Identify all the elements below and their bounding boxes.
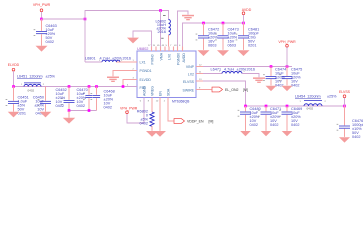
pin LX1 (1) left side <box>116 61 137 63</box>
svg-text:U6802: U6802 <box>137 46 148 51</box>
junction at riser x85 <box>84 18 87 21</box>
svg-text:2: 2 <box>43 84 45 86</box>
svg-text:0402: 0402 <box>77 104 85 108</box>
svg-text:0402: 0402 <box>28 88 35 92</box>
ground below C6450 <box>40 112 52 118</box>
ground for PVIN loop <box>127 38 139 44</box>
capacitor C6472 <box>203 23 205 35</box>
svg-text:4: 4 <box>179 45 181 47</box>
svg-text:PGND1: PGND1 <box>140 69 152 73</box>
ground below C6472 <box>198 50 210 56</box>
svg-text:L6801: L6801 <box>85 56 96 60</box>
capacitor C6451 <box>13 87 15 101</box>
ground bar for PGND1 <box>107 77 119 83</box>
wire corner into inductor L6802 <box>168 10 170 19</box>
wire VPH_PWR right stem <box>286 47 288 67</box>
wire VPH_PWR bottom to pin <box>127 98 144 124</box>
capacitor C6475 <box>286 67 288 76</box>
ground below AGND pin <box>154 131 166 137</box>
svg-text:±25%: ±25% <box>46 75 56 79</box>
pin ELVDD (3) left side <box>123 80 137 87</box>
wire ELVDD flag stem <box>13 71 15 87</box>
svg-text:ELVSS: ELVSS <box>339 90 351 94</box>
svg-text:VPH_PWR: VPH_PWR <box>120 107 138 111</box>
svg-text:VPH_PWR: VPH_PWR <box>33 3 51 7</box>
ground below C6471 <box>261 131 272 136</box>
svg-text:ELVSS: ELVSS <box>183 80 195 84</box>
svg-text:VPH_PWR: VPH_PWR <box>278 40 296 44</box>
svg-text:ELVDD: ELVDD <box>140 78 152 82</box>
ground below C6469 <box>282 131 293 136</box>
wire VPH_PWR flag stem <box>41 12 43 20</box>
svg-text:17: 17 <box>148 45 151 47</box>
wire AVDD pin riser x182.5 <box>183 23 244 47</box>
pin PGND1 (2) left side <box>113 71 137 77</box>
svg-text:L6451 120ohm: L6451 120ohm <box>17 75 43 79</box>
junction top rail to VMA pin <box>159 9 162 12</box>
svg-text:0402: 0402 <box>56 104 64 108</box>
svg-text:[M]: [M] <box>209 120 214 124</box>
wire VPH to L6801 <box>85 61 102 63</box>
svg-text:L6454 120ohm: L6454 120ohm <box>295 95 321 99</box>
capacitor C6463 <box>41 19 43 31</box>
svg-text:VINP: VINP <box>186 65 195 69</box>
capacitor C6468 <box>96 87 98 95</box>
capacitor C6474 <box>270 67 272 76</box>
svg-text:PGND0: PGND0 <box>176 53 180 65</box>
ground below C6481 <box>238 50 250 56</box>
wire L6801 to pin LX1 <box>120 61 137 63</box>
capacitor C6452 <box>68 87 70 100</box>
wire riser x85 down to L6801 row <box>84 10 86 62</box>
wire VINP rail <box>203 66 292 68</box>
svg-text:0402: 0402 <box>270 123 278 127</box>
ground for cap return rail <box>68 111 70 118</box>
inductor L6801 <box>102 60 120 62</box>
svg-text:2: 2 <box>164 100 166 102</box>
wire ELVSS to bottom rail <box>203 81 246 106</box>
svg-text:4.7uH: 4.7uH <box>100 56 110 60</box>
svg-text:±25%: ±25% <box>327 95 337 99</box>
svg-text:PVIN0: PVIN0 <box>150 54 154 64</box>
svg-text:4.7uH: 4.7uH <box>224 67 234 71</box>
svg-text:EL_ON2: EL_ON2 <box>225 88 238 92</box>
svg-text:15: 15 <box>153 45 156 47</box>
capacitor C6480 <box>245 106 247 111</box>
svg-text:5: 5 <box>166 45 168 47</box>
wire AGND pin to ground <box>159 98 161 131</box>
op-amp U6802 IC body <box>137 51 196 98</box>
ferrite bead L6454 <box>304 99 322 101</box>
svg-text:0603: 0603 <box>228 43 236 47</box>
svg-text:MT6368QB: MT6368QB <box>172 100 190 104</box>
svg-text:AGND: AGND <box>143 85 147 96</box>
wire LX2 to inductor L6471 <box>203 73 222 75</box>
wire AVDD flag stem <box>243 15 245 24</box>
ground below C6474 <box>266 86 277 91</box>
svg-text:0201: 0201 <box>18 112 26 116</box>
inductor L6471 <box>222 72 242 74</box>
capacitor C6471 <box>265 106 267 111</box>
capacitor C6469 <box>286 106 288 111</box>
wire L6471 to ground corner <box>242 74 259 78</box>
ground bar for L6471 <box>253 77 265 83</box>
svg-text:1: 1 <box>300 101 302 103</box>
svg-text:LX2: LX2 <box>188 73 194 77</box>
svg-text:0603: 0603 <box>208 43 216 47</box>
svg-text:2016: 2016 <box>247 67 255 71</box>
port EL_ON2 <box>212 87 223 92</box>
svg-text:43: 43 <box>174 45 177 47</box>
capacitor C6473 <box>222 23 224 35</box>
svg-text:SWIRE: SWIRE <box>183 89 195 93</box>
capacitor C6481 <box>243 23 245 35</box>
svg-text:0402: 0402 <box>140 121 148 125</box>
ground below R6802 <box>146 131 158 137</box>
node ELVDD rail <box>14 86 138 88</box>
svg-text:6: 6 <box>140 100 142 102</box>
svg-text:2: 2 <box>325 101 327 103</box>
svg-text:0402: 0402 <box>291 84 299 88</box>
wire VPH_PWR horizontal to riser <box>42 18 86 20</box>
ground below C6476 <box>339 137 350 142</box>
wire PGND pin up-right to ground <box>178 11 189 47</box>
svg-text:7: 7 <box>170 45 172 47</box>
svg-text:0402: 0402 <box>250 123 258 127</box>
svg-text:0402: 0402 <box>307 107 314 111</box>
wire PVIN pin up-left to ground <box>133 31 152 47</box>
ground below C6463 <box>36 46 48 52</box>
svg-text:0402: 0402 <box>275 84 283 88</box>
ferrite bead L6451 <box>24 82 41 84</box>
wire shared cap return rail <box>69 110 97 112</box>
svg-text:VMA: VMA <box>159 52 163 60</box>
ground below C6451 <box>8 112 20 118</box>
wire ELVSS flag stem <box>344 98 346 107</box>
svg-text:ELVDD: ELVDD <box>8 63 20 67</box>
svg-text:2016: 2016 <box>123 56 131 60</box>
U6802 top pin stubs <box>151 47 153 52</box>
svg-text:0201: 0201 <box>248 43 256 47</box>
resistor R6802 <box>151 98 153 113</box>
capacitor C6450 <box>45 87 47 101</box>
svg-text:0402: 0402 <box>352 135 360 139</box>
node ELVSS rail <box>246 105 345 107</box>
svg-text:45: 45 <box>157 45 160 47</box>
svg-text:EN: EN <box>159 91 163 96</box>
svg-text:VDDP_EN: VDDP_EN <box>187 120 204 124</box>
svg-text:0402: 0402 <box>46 40 54 44</box>
svg-text:10: 10 <box>156 100 159 102</box>
svg-text:0402: 0402 <box>291 123 299 127</box>
svg-text:2016: 2016 <box>158 30 166 34</box>
capacitor C6470 <box>88 87 90 95</box>
svg-text:VREG: VREG <box>151 86 155 96</box>
ground below C6475 <box>282 86 293 91</box>
svg-text:8: 8 <box>148 100 150 102</box>
svg-text:43: 43 <box>162 45 165 47</box>
svg-text:SDA: SDA <box>167 88 171 96</box>
svg-text:LX0: LX0 <box>167 54 171 60</box>
ground below C6480 <box>240 131 251 136</box>
svg-text:0402: 0402 <box>104 106 112 110</box>
svg-text:[M]: [M] <box>243 88 248 92</box>
wire top rail y10.5 to L6802 <box>85 10 169 12</box>
wire SDA pin to VDDP_EN port <box>168 98 174 122</box>
ground bar top right of L6802 <box>182 15 194 20</box>
ground below C6473 <box>217 50 229 56</box>
svg-text:AVDD: AVDD <box>182 53 186 63</box>
wire VMA pin riser x160.5 <box>160 11 162 47</box>
port VDDP_EN <box>174 119 185 124</box>
svg-text:±20%: ±20% <box>237 67 247 71</box>
junction at VPH_PWR cap tap <box>40 18 43 21</box>
inductor L6802 (vertical) <box>169 20 171 36</box>
capacitor C6476 <box>344 106 346 125</box>
svg-text:1: 1 <box>21 84 23 86</box>
svg-text:LX1: LX1 <box>140 61 146 65</box>
